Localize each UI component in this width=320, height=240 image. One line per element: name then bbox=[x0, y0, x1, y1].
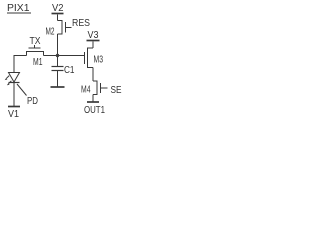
label RES bbox=[72, 18, 90, 29]
terminal V3 bbox=[88, 30, 99, 41]
wire V3 to M3 drain bbox=[92, 42, 94, 49]
svg-text:PD: PD bbox=[27, 96, 38, 107]
label PD with pointer bbox=[17, 84, 27, 96]
svg-text:M1: M1 bbox=[33, 57, 43, 68]
wire V2 to M2 drain bbox=[57, 15, 59, 21]
capacitor C1 bbox=[57, 56, 59, 67]
transistor M4 bbox=[93, 80, 97, 82]
photodiode PD bbox=[9, 73, 20, 83]
svg-text:C1: C1 bbox=[64, 65, 75, 76]
light arrow 1 bbox=[5, 76, 10, 81]
transistor M3 bbox=[88, 47, 94, 49]
label PIX1 bbox=[7, 3, 30, 14]
wire M1 to photodiode bbox=[14, 56, 27, 73]
transistor M1 (transfer gate) bbox=[34, 45, 36, 48]
terminal V2 bbox=[52, 3, 64, 14]
wire M2 source to FD node bbox=[57, 34, 59, 56]
svg-text:M4: M4 bbox=[81, 84, 91, 95]
wire PD cathode to V1 bbox=[13, 83, 15, 107]
transistor M2 bbox=[58, 20, 63, 22]
svg-text:TX: TX bbox=[30, 36, 41, 47]
svg-text:OUT1: OUT1 bbox=[84, 105, 105, 116]
light arrow 2 bbox=[7, 81, 11, 86]
svg-text:M3: M3 bbox=[94, 54, 104, 65]
node FD junction dot bbox=[56, 54, 59, 57]
svg-text:RES: RES bbox=[72, 18, 90, 29]
terminal V1 bbox=[8, 106, 20, 108]
svg-text:V3: V3 bbox=[88, 30, 99, 41]
label TX bbox=[30, 36, 41, 47]
svg-text:M2: M2 bbox=[46, 27, 55, 38]
wire FD bus bbox=[44, 55, 85, 57]
wire M3 source to M4 drain bbox=[92, 68, 94, 82]
terminal OUT1 bbox=[87, 101, 99, 103]
svg-text:V2: V2 bbox=[52, 3, 64, 14]
svg-text:V1: V1 bbox=[8, 109, 19, 120]
svg-text:PIX1: PIX1 bbox=[7, 3, 30, 14]
svg-text:SE: SE bbox=[111, 85, 122, 96]
wire M4 source to OUT1 bbox=[92, 95, 94, 102]
label SE bbox=[111, 85, 122, 96]
terminal bar C1 bottom bbox=[51, 86, 65, 88]
wire C1 bottom bbox=[57, 71, 59, 87]
